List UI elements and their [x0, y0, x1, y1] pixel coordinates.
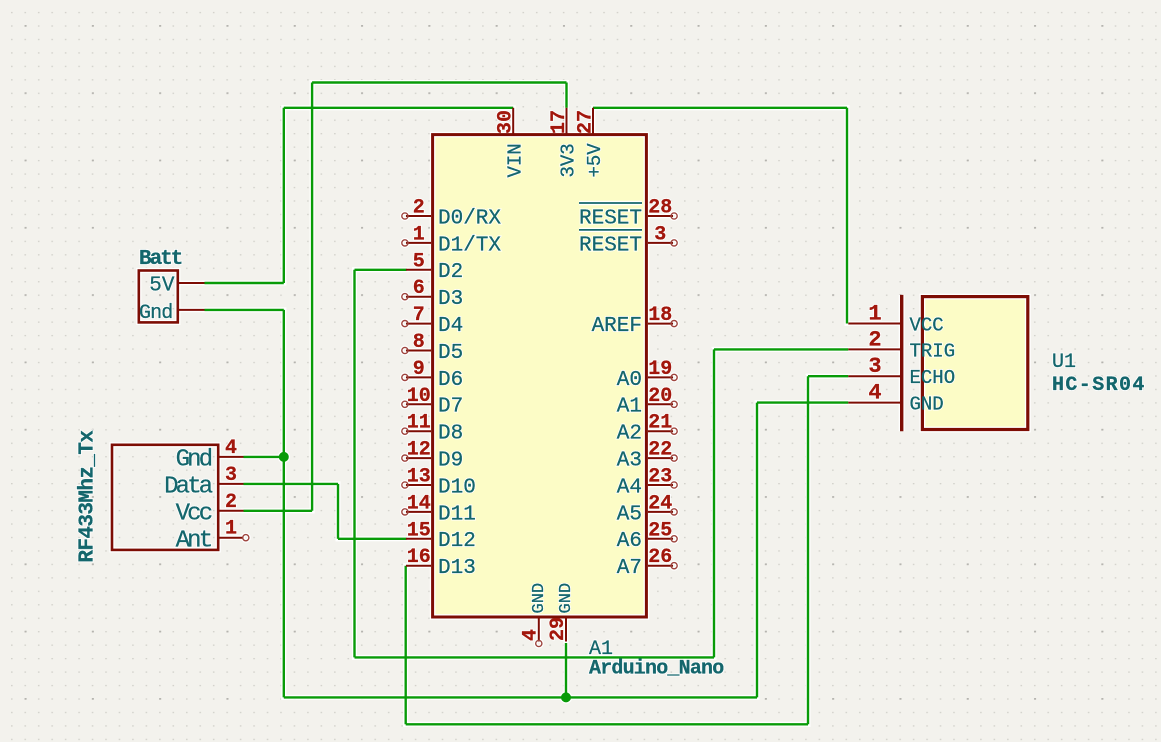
svg-text:19: 19 — [648, 358, 672, 381]
svg-text:D4: D4 — [438, 315, 463, 338]
svg-text:25: 25 — [648, 519, 672, 542]
wire RF433 Vcc to 3V3 segment A — [244, 510, 313, 512]
wire +5V to HC-SR04 VCC segment B (vertical) — [846, 108, 848, 324]
wire GND net bottom horizontal — [284, 696, 757, 698]
svg-text:GND: GND — [557, 583, 576, 614]
pin 1 VCC (HC-SR04) — [848, 302, 943, 337]
svg-text:D5: D5 — [438, 342, 463, 365]
pin 3 Data (RF433Mhz_Tx) — [164, 464, 243, 501]
pin 5V (Batt) — [149, 274, 204, 297]
svg-text:D7: D7 — [438, 396, 463, 419]
svg-text:D3: D3 — [438, 288, 463, 311]
pin 22 A3 (Arduino right) — [617, 439, 677, 473]
wire RF433 Vcc to 3V3 segment B (vertical) — [311, 83, 313, 511]
pin 4 GND (HC-SR04) — [848, 381, 943, 416]
pin 30 VIN (Arduino top) — [495, 108, 527, 178]
pin 20 A1 (Arduino right) — [617, 385, 677, 419]
svg-text:A5: A5 — [617, 503, 642, 526]
pin 2 Vcc (RF433Mhz_Tx) — [176, 491, 244, 528]
wire RF433 Data to D12 segment A — [244, 483, 339, 485]
wire GND net Arduino GND29 drop — [565, 643, 567, 697]
svg-text:13: 13 — [407, 466, 431, 489]
svg-text:5V: 5V — [149, 274, 175, 297]
svg-text:2: 2 — [868, 327, 881, 352]
svg-text:21: 21 — [648, 412, 672, 435]
svg-text:D9: D9 — [438, 450, 463, 473]
svg-text:A1: A1 — [617, 396, 642, 419]
svg-text:28: 28 — [648, 197, 672, 220]
wire GND net RF433 Gnd stub to junction — [244, 456, 284, 458]
svg-text:A6: A6 — [617, 530, 642, 553]
svg-text:TRIG: TRIG — [910, 340, 956, 362]
svg-text:7: 7 — [413, 304, 425, 327]
pin 11 D8 (Arduino left) — [402, 412, 463, 446]
svg-text:2: 2 — [225, 491, 237, 514]
pin 12 D9 (Arduino left) — [402, 439, 463, 473]
Arduino Nano A1 body fill — [433, 135, 647, 617]
pin 25 A6 (Arduino right) — [617, 519, 677, 553]
svg-text:GND: GND — [910, 394, 944, 416]
svg-text:D12: D12 — [438, 530, 476, 553]
wire GND net Batt Gnd segment — [205, 309, 284, 311]
pin 6 D3 (Arduino left) — [402, 277, 463, 311]
svg-text:Vcc: Vcc — [176, 501, 212, 528]
wire RF433 Vcc to 3V3 segment D (drop to 3V3) — [565, 83, 567, 108]
pin 17 3V3 (Arduino top) — [548, 108, 580, 178]
svg-text:Gnd: Gnd — [176, 447, 212, 474]
svg-text:30: 30 — [495, 110, 518, 134]
svg-text:D2: D2 — [438, 261, 463, 284]
svg-text:Batt: Batt — [139, 248, 182, 271]
ultrasonic sensor U1 HC-SR04 body — [922, 297, 1027, 430]
svg-text:VIN: VIN — [504, 143, 526, 177]
wire Batt 5V to VIN segment A — [205, 282, 284, 284]
white halo casing layer (render artifact) — [76, 83, 1146, 725]
wire Batt 5V to VIN segment B (vertical) — [283, 108, 285, 283]
pin 5 D2 (Arduino left) — [406, 250, 463, 284]
svg-text:GND: GND — [530, 583, 549, 614]
svg-text:D1/TX: D1/TX — [438, 234, 501, 257]
wire Batt 5V to VIN segment C — [284, 107, 513, 109]
svg-text:Data: Data — [164, 474, 213, 501]
svg-text:11: 11 — [407, 412, 431, 435]
svg-text:A7: A7 — [617, 557, 642, 580]
pin 4 GND (Arduino bottom) — [520, 583, 549, 647]
pin 8 D5 (Arduino left) — [402, 331, 463, 365]
wire D2 to TRIG segment D (vertical) — [713, 349, 715, 657]
svg-text:AREF: AREF — [592, 315, 642, 338]
svg-text:A2: A2 — [617, 423, 642, 446]
svg-text:D11: D11 — [438, 503, 476, 526]
pin 1 Ant (RF433Mhz_Tx) — [176, 518, 249, 555]
pin 27 +5V (Arduino top) — [575, 108, 607, 178]
svg-text:RESET: RESET — [579, 207, 642, 230]
pin 24 A5 (Arduino right) — [617, 492, 677, 526]
wire GND net right vertical — [756, 403, 758, 698]
wire GND net left vertical — [283, 310, 285, 698]
svg-text:A0: A0 — [617, 369, 642, 392]
svg-text:14: 14 — [407, 492, 431, 515]
wire D2 to TRIG segment A — [355, 269, 407, 271]
svg-text:26: 26 — [648, 546, 672, 569]
pin 3 ECHO (HC-SR04) — [848, 354, 955, 389]
pin 7 D4 (Arduino left) — [402, 304, 463, 338]
svg-text:Arduino_Nano: Arduino_Nano — [589, 658, 724, 681]
pin 26 A7 (Arduino right) — [617, 546, 677, 580]
svg-text:18: 18 — [648, 304, 672, 327]
wire D13 to ECHO segment B — [406, 723, 808, 725]
svg-text:12: 12 — [407, 439, 431, 462]
wire RF433 Vcc to 3V3 segment C — [312, 81, 566, 83]
svg-text:D10: D10 — [438, 476, 476, 499]
svg-text:29: 29 — [547, 617, 570, 641]
wire D2 to TRIG segment E — [714, 348, 848, 350]
wire D13 to ECHO segment A (vertical) — [405, 566, 407, 725]
ultrasonic sensor U1 HC-SR04 body fill — [922, 297, 1027, 430]
svg-text:4: 4 — [520, 629, 543, 641]
svg-text:8: 8 — [413, 331, 425, 354]
pin 2 D0/RX (Arduino left) — [402, 197, 502, 231]
pin 19 A0 (Arduino right) — [617, 358, 677, 392]
svg-text:27: 27 — [575, 110, 598, 134]
battery Batt body — [139, 271, 178, 323]
junction at RF433 Gnd / GND net — [279, 452, 289, 462]
HC-SR04 left bar — [900, 295, 903, 431]
pin 23 A4 (Arduino right) — [617, 466, 677, 500]
wire +5V to HC-SR04 VCC segment A — [593, 107, 847, 109]
svg-text:HC-SR04: HC-SR04 — [1052, 374, 1146, 397]
svg-text:20: 20 — [648, 385, 672, 408]
pin 15 D12 (Arduino left) — [406, 519, 476, 553]
svg-text:1: 1 — [413, 223, 425, 246]
svg-text:10: 10 — [407, 385, 431, 408]
pin 14 D11 (Arduino left) — [402, 492, 476, 526]
svg-text:3V3: 3V3 — [558, 143, 580, 177]
svg-text:A3: A3 — [617, 450, 642, 473]
svg-text:D13: D13 — [438, 557, 476, 580]
pin 29 GND (Arduino bottom) — [547, 583, 576, 642]
svg-text:D8: D8 — [438, 423, 463, 446]
wire D2 to TRIG segment B (vertical) — [353, 270, 355, 658]
pin 4 Gnd (RF433Mhz_Tx) — [176, 437, 244, 474]
wire RF433 Data to D12 segment B (vertical) — [337, 484, 339, 539]
svg-text:1: 1 — [225, 518, 237, 541]
pin 9 D6 (Arduino left) — [402, 358, 463, 392]
wire D13 to ECHO segment D — [808, 375, 848, 377]
svg-text:24: 24 — [648, 492, 672, 515]
junction at Arduino GND29 / GND net — [561, 692, 571, 702]
svg-text:9: 9 — [413, 358, 425, 381]
svg-text:17: 17 — [548, 110, 571, 134]
svg-text:1: 1 — [868, 302, 881, 327]
svg-text:4: 4 — [868, 381, 881, 406]
svg-text:16: 16 — [407, 546, 431, 569]
pin 28 RESET (Arduino right) — [579, 197, 677, 231]
pin 10 D7 (Arduino left) — [402, 385, 463, 419]
svg-text:4: 4 — [225, 437, 237, 460]
pin 16 D13 (Arduino left) — [406, 546, 476, 580]
svg-text:RESET: RESET — [579, 234, 642, 257]
svg-text:VCC: VCC — [910, 315, 944, 337]
wire D2 to TRIG segment C — [355, 656, 715, 658]
svg-text:23: 23 — [648, 466, 672, 489]
pin Gnd (Batt) — [139, 302, 205, 325]
svg-text:6: 6 — [413, 277, 425, 300]
svg-text:22: 22 — [648, 439, 672, 462]
svg-text:RF433Mhz_Tx: RF433Mhz_Tx — [76, 430, 99, 563]
svg-text:D0/RX: D0/RX — [438, 207, 501, 230]
svg-text:D6: D6 — [438, 369, 463, 392]
pin 3 RESET (Arduino right) — [579, 223, 677, 257]
Arduino Nano A1 body — [433, 135, 647, 617]
pin 1 D1/TX (Arduino left) — [402, 223, 502, 257]
svg-text:Gnd: Gnd — [139, 302, 172, 325]
wire D13 to ECHO segment C (vertical) — [807, 376, 809, 724]
wire RF433 Data to D12 segment C — [338, 538, 407, 540]
svg-text:U1: U1 — [1052, 351, 1076, 374]
svg-text:5: 5 — [413, 250, 425, 273]
svg-text:ECHO: ECHO — [910, 367, 956, 389]
svg-text:3: 3 — [225, 464, 237, 487]
pin 21 A2 (Arduino right) — [617, 412, 677, 446]
svg-text:2: 2 — [413, 197, 425, 220]
RF transmitter RF433Mhz_Tx body — [112, 445, 218, 550]
svg-text:15: 15 — [407, 519, 431, 542]
pin 18 AREF (Arduino right) — [592, 304, 678, 338]
svg-text:+5V: +5V — [584, 143, 606, 178]
svg-text:3: 3 — [868, 354, 881, 379]
svg-text:A4: A4 — [617, 476, 642, 499]
pin 13 D10 (Arduino left) — [402, 466, 476, 500]
svg-text:3: 3 — [654, 223, 666, 246]
pin 2 TRIG (HC-SR04) — [848, 327, 955, 362]
wire GND net to HC-SR04 GND — [757, 401, 848, 403]
svg-text:Ant: Ant — [176, 527, 211, 554]
